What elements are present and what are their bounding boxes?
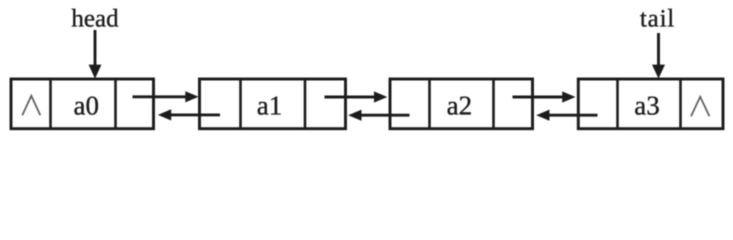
head pointer arrow (89, 30, 102, 79)
prev pointer wire node3 to node2 (348, 110, 409, 121)
node 4 null next symbol (691, 97, 709, 117)
node 1 null prev symbol (22, 96, 40, 116)
next pointer wire node1 to node2 (133, 91, 199, 102)
svg-text:a2: a2 (447, 91, 472, 121)
next pointer wire node3 to node4 (513, 91, 576, 102)
node 3 box (390, 79, 533, 129)
svg-text:head: head (71, 6, 119, 33)
svg-text:a1: a1 (257, 91, 282, 121)
node 1 box (11, 79, 154, 129)
node 4 box (578, 79, 723, 129)
prev pointer wire node2 to node1 (158, 109, 220, 120)
svg-text:a0: a0 (74, 91, 99, 121)
svg-text:tail: tail (640, 6, 675, 33)
prev pointer wire node4 to node3 (536, 110, 597, 121)
node 2 box (200, 79, 346, 129)
next pointer wire node2 to node3 (325, 91, 388, 102)
tail pointer arrow (652, 33, 665, 79)
svg-text:a3: a3 (634, 91, 659, 121)
